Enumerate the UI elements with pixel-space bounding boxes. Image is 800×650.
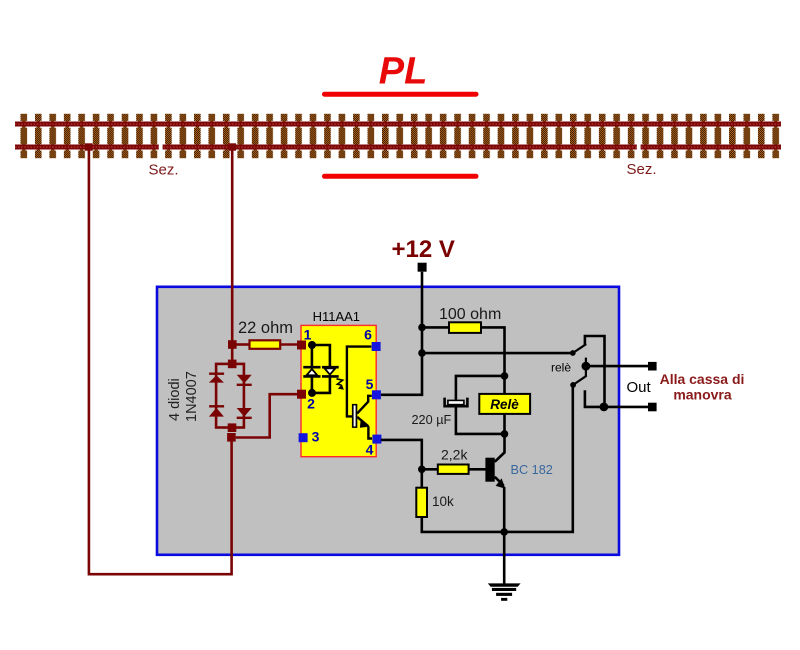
node dot emitter rail <box>500 528 508 536</box>
rail tap square right <box>228 143 236 150</box>
wire 10k bottom to emitter rail and NC contact <box>422 385 573 532</box>
U1 LED A triangle <box>305 368 319 376</box>
U1 pin6 pad <box>372 342 381 351</box>
PL bar top <box>325 92 477 97</box>
terminal +12V <box>418 263 427 272</box>
wire common to Out terminal 1 <box>586 365 649 368</box>
svg-text:4 diodi: 4 diodi <box>167 378 183 421</box>
node bridge top <box>228 360 237 369</box>
rail tap square left <box>85 143 93 150</box>
Q1 emitter lead with arrow <box>495 477 506 532</box>
svg-text:1N4007: 1N4007 <box>184 371 200 422</box>
wire 22ohm left lead <box>237 343 250 346</box>
ground <box>488 583 521 600</box>
diode D1 <box>209 374 224 383</box>
svg-text:PL: PL <box>379 51 428 93</box>
node dot relay rail top <box>501 372 509 380</box>
svg-text:6: 6 <box>364 326 372 342</box>
diode bridge outline <box>216 364 244 428</box>
node bottom rail junction <box>600 403 609 412</box>
relay contact bracket to bottom rail <box>585 336 605 407</box>
node bridge output <box>227 433 236 442</box>
diode D4 <box>237 408 252 418</box>
node dot relay rail bottom <box>501 430 509 438</box>
wire 100ohm left lead <box>422 326 449 329</box>
relay contact lower arm <box>570 376 586 388</box>
relay common pole <box>582 358 591 377</box>
wire +12V rail down to pin5 <box>381 272 422 395</box>
U1 collector to pin5 <box>357 396 372 414</box>
U1 phototransistor bar <box>352 404 357 428</box>
node dot 100ohm branch <box>418 324 426 332</box>
U1 LED B triangle <box>323 368 337 376</box>
U1 pin1 pad <box>297 341 306 350</box>
circuit enclosure box <box>157 287 619 555</box>
svg-text:22 ohm: 22 ohm <box>238 319 293 337</box>
svg-text:5: 5 <box>366 376 374 392</box>
PL bar bottom <box>325 174 477 179</box>
rail top <box>15 122 781 127</box>
node bridge bottom <box>228 423 237 432</box>
node junction 22ohm branch <box>228 340 237 349</box>
label Alla cassa di manovra <box>660 371 745 403</box>
svg-text:Sez.: Sez. <box>627 161 657 178</box>
wire bridge output to pin2 <box>236 394 298 437</box>
U1 light arrow <box>337 379 344 390</box>
rail isolation gap left (Sez.) <box>159 144 163 151</box>
relay contact upper arm <box>570 344 586 356</box>
resistor 2,2k <box>438 465 469 474</box>
svg-text:relè: relè <box>551 360 571 374</box>
svg-text:Sez.: Sez. <box>149 162 179 179</box>
svg-text:1: 1 <box>304 326 312 342</box>
U1 base wire from pin6 <box>347 347 371 417</box>
wire pin4 down to base junction and 10k <box>381 440 422 488</box>
U1 pin1 inner dot <box>308 341 316 349</box>
svg-text:10k: 10k <box>432 494 454 509</box>
U1 internal LED wires <box>303 345 338 393</box>
wire emitter to ground <box>503 532 506 584</box>
svg-text:100 ohm: 100 ohm <box>439 306 501 323</box>
svg-text:+12 V: +12 V <box>392 236 455 263</box>
svg-text:Alla cassa di: Alla cassa di <box>660 371 745 387</box>
svg-text:Out: Out <box>627 379 652 396</box>
U1 pin4 pad <box>372 435 381 444</box>
diode D2 <box>209 406 224 416</box>
wire track-right down to bridge top <box>231 147 234 364</box>
svg-text:BC 182: BC 182 <box>511 463 553 477</box>
wire 2,2k to base <box>469 468 486 471</box>
op-to U1 H11AA1 body <box>301 325 376 456</box>
U1 pin2 pad <box>297 390 306 399</box>
U1 pin2 inner dot <box>308 389 316 397</box>
wire to Out terminal 2 <box>604 406 649 409</box>
capacitor C1 cup <box>445 398 468 407</box>
capacitor C1 220uF top lead <box>456 376 505 401</box>
transistor Q1 BC182 bar <box>485 458 494 482</box>
terminal Out 1 <box>648 362 657 371</box>
rail bottom <box>15 145 781 150</box>
label 4 diodi 1N4007 <box>167 371 200 422</box>
svg-text:4: 4 <box>366 441 374 457</box>
svg-text:H11AA1: H11AA1 <box>313 309 360 324</box>
relay coil box <box>479 394 530 414</box>
wire relay rail through coil to collector <box>503 376 506 453</box>
capacitor C1 plate <box>448 400 464 404</box>
diode D3 <box>237 375 252 385</box>
svg-text:Relè: Relè <box>490 397 519 412</box>
wire track-left down-across-up to bridge bottom <box>89 150 232 574</box>
svg-text:220 µF: 220 µF <box>412 413 452 427</box>
U1 pin5 pad <box>372 390 381 399</box>
svg-text:2: 2 <box>307 396 315 412</box>
wire 2,2k left lead <box>422 468 438 471</box>
U1 pin3 pad <box>299 433 308 442</box>
terminal Out 2 <box>648 403 657 412</box>
rail isolation gap right (Sez.) <box>637 144 641 151</box>
wire 100ohm to relay rail <box>481 327 505 376</box>
resistor 10k <box>416 488 427 517</box>
wire switch feed <box>422 352 573 355</box>
relay NC stub <box>585 390 604 407</box>
resistor 100 ohm <box>449 322 481 333</box>
node dot switch branch <box>418 349 426 357</box>
resistor 22 ohm <box>250 340 281 349</box>
svg-text:manovra: manovra <box>673 387 732 403</box>
svg-text:2,2k: 2,2k <box>441 447 468 463</box>
U1 emitter to pin4 <box>357 417 372 439</box>
Q1 collector lead <box>495 452 505 462</box>
capacitor C1 bottom lead <box>456 406 505 434</box>
node dot base junction <box>418 466 426 474</box>
wire 22ohm to pin1 <box>280 343 297 346</box>
svg-text:3: 3 <box>312 428 320 444</box>
U1 pin numbers <box>304 326 374 457</box>
railway sleepers <box>15 110 781 162</box>
